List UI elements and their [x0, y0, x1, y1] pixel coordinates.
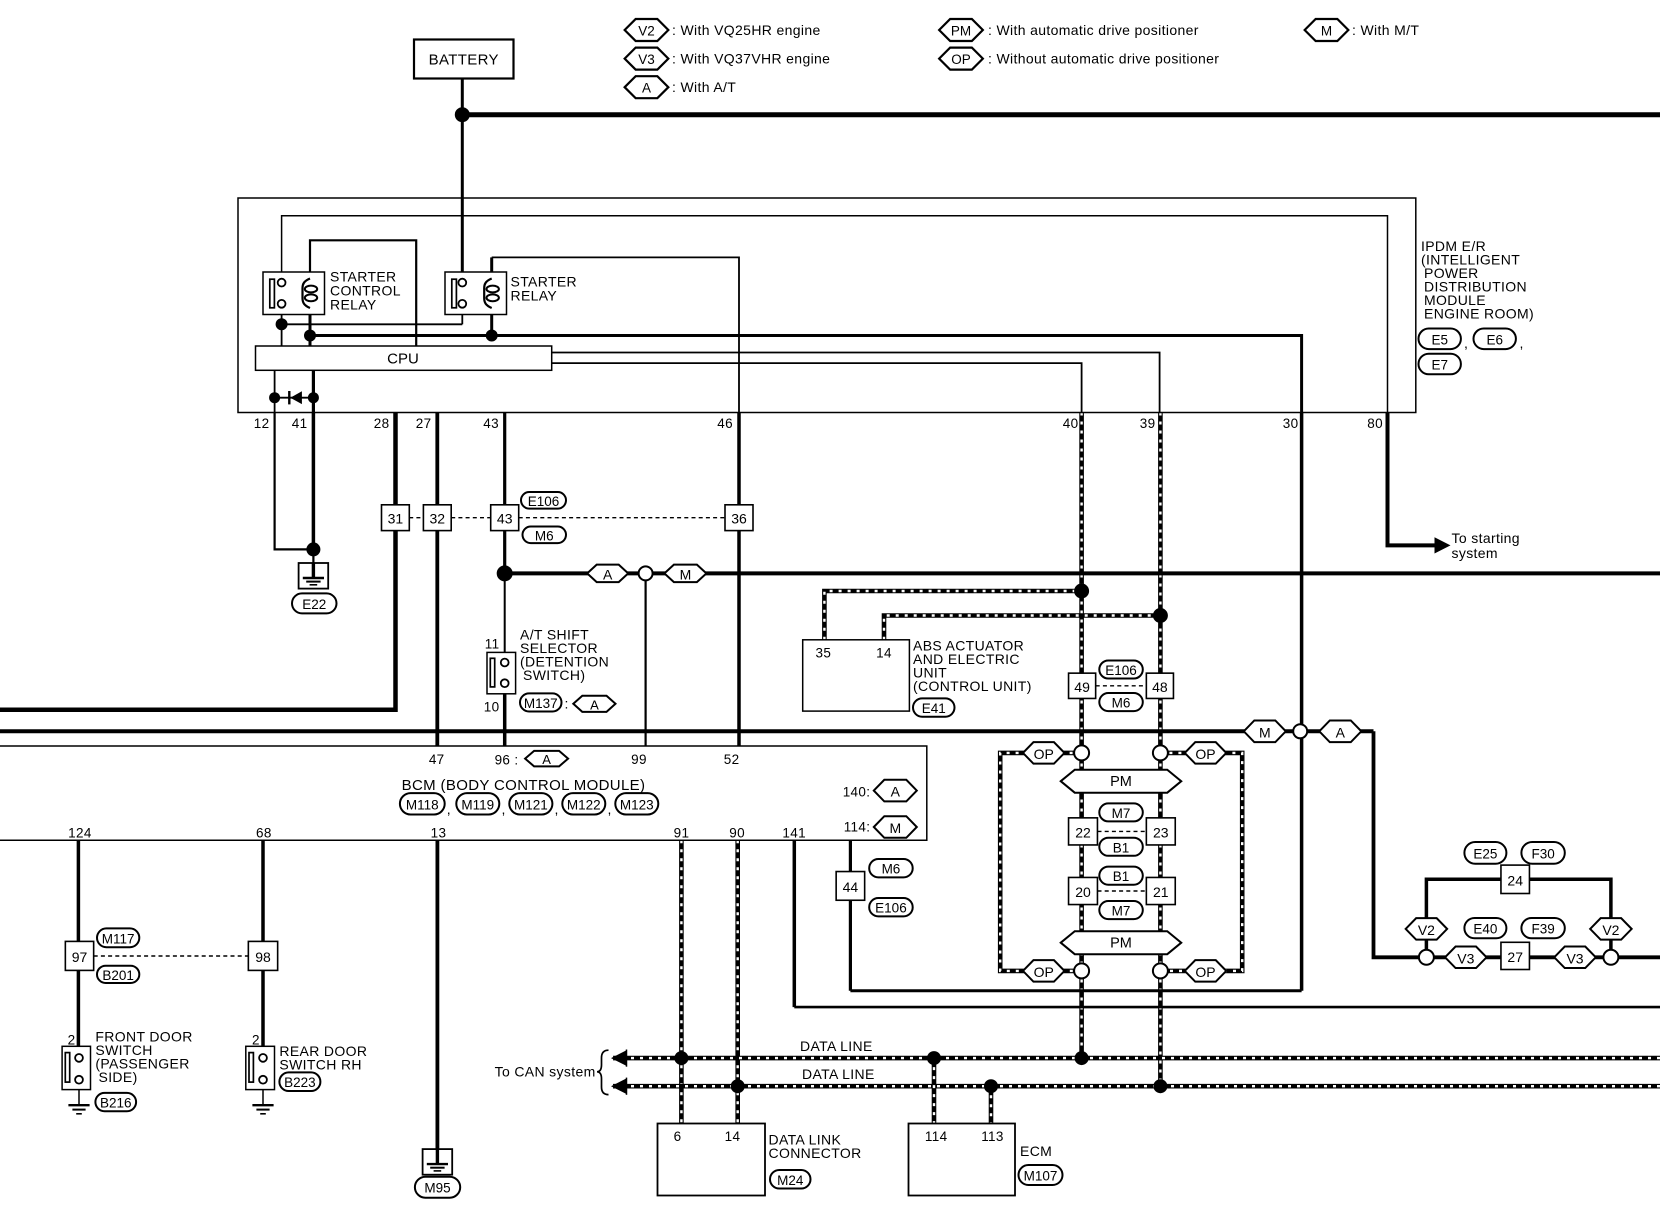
wire V2 option upper branch through connector 24 — [1426, 879, 1611, 950]
connector B201 label — [97, 966, 139, 983]
svg-text:A: A — [590, 697, 599, 712]
svg-text:M118: M118 — [406, 797, 439, 812]
wire A/M junction circle to BCM pin 99 — [644, 573, 646, 746]
option hexagon OP upper right — [1185, 742, 1227, 764]
svg-text:97: 97 — [72, 949, 88, 965]
connector pin 48 — [1146, 673, 1173, 698]
svg-text:,: , — [608, 801, 612, 817]
svg-text:14: 14 — [725, 1129, 741, 1144]
wire IPDM pin 12 to ground junction — [275, 413, 314, 550]
connector M118 label — [400, 793, 445, 814]
wire battery bus to right edge — [462, 112, 1660, 117]
svg-text:M95: M95 — [424, 1181, 450, 1196]
connector pin 44 — [836, 872, 865, 901]
connector F39 label — [1521, 918, 1564, 938]
svg-text:A: A — [1336, 724, 1346, 740]
svg-text:140:: 140: — [843, 785, 871, 800]
ground rear door switch — [252, 1104, 273, 1106]
wire BCM pin 124 to connector 97 — [77, 840, 81, 941]
wire ABS pin 14 branch (dashed) — [884, 616, 1160, 640]
option split circle V right — [1603, 950, 1618, 965]
svg-text:80: 80 — [1367, 416, 1383, 431]
connector M137 label — [520, 693, 562, 711]
svg-text:,: , — [1520, 335, 1524, 351]
wire BCM pin 141 to right edge — [793, 840, 797, 1007]
option hexagon M on run to BCM — [1244, 720, 1286, 742]
connector pin 32 — [423, 505, 451, 531]
svg-text:E22: E22 — [302, 597, 326, 612]
CPU box — [256, 346, 552, 370]
option hexagon OP lower right — [1185, 960, 1227, 982]
ground symbol M95 — [423, 1149, 453, 1175]
svg-text:: With VQ25HR engine: : With VQ25HR engine — [672, 22, 821, 38]
svg-text:OP: OP — [1034, 964, 1054, 980]
connector M7 label at 20-21 — [1099, 901, 1143, 919]
data link connector box — [658, 1124, 766, 1196]
svg-text:RELAY: RELAY — [511, 288, 558, 304]
svg-text:SWITCH RH: SWITCH RH — [279, 1057, 361, 1073]
connector pin 31 — [382, 505, 410, 531]
connector pin 36 — [725, 505, 753, 531]
svg-text:M7: M7 — [1112, 806, 1131, 821]
svg-text:M7: M7 — [1112, 904, 1131, 919]
option split circle wire 40 lower — [1074, 963, 1089, 978]
wire pin 46 run to BCM pin 52 — [737, 413, 741, 747]
svg-text:22: 22 — [1075, 824, 1091, 840]
option hexagon V3 left — [1445, 947, 1487, 969]
svg-text:M137: M137 — [524, 696, 558, 711]
connector M123 label — [615, 793, 658, 814]
svg-text:: With VQ37VHR engine: : With VQ37VHR engine — [672, 51, 830, 67]
junction dot BCM pin 91 on data line 1 — [674, 1051, 688, 1065]
junction dot ABS branch on wire 39 — [1153, 608, 1168, 623]
wire BCM pin 91 to data link connector pin 6 (dashed) — [679, 840, 684, 1123]
connector pin 20 — [1069, 877, 1098, 904]
option hexagon V3 right — [1554, 947, 1596, 969]
connector link 49-48 (dashed) — [1096, 685, 1147, 687]
svg-text:28: 28 — [374, 416, 390, 431]
svg-text:To CAN system: To CAN system — [495, 1064, 596, 1080]
svg-text:10: 10 — [484, 700, 500, 715]
wire connector 98 to rear door switch — [261, 970, 265, 1048]
svg-text:A: A — [542, 752, 551, 767]
connector M107 label — [1019, 1165, 1063, 1185]
legend hexagon PM — [939, 19, 983, 41]
connector pin 98 — [248, 941, 277, 970]
wire CPU to diode anode (pin 12 branch) — [274, 370, 276, 412]
svg-text:ECM: ECM — [1020, 1143, 1052, 1159]
svg-text:E41: E41 — [922, 701, 946, 716]
svg-text:141: 141 — [782, 826, 806, 841]
svg-text:114: 114 — [925, 1129, 948, 1144]
connector link 20-21 (dashed) — [1098, 890, 1147, 892]
svg-text:23: 23 — [1153, 824, 1169, 840]
arrow to starting system — [1435, 537, 1451, 553]
svg-text:68: 68 — [256, 826, 272, 841]
connector E106 label at 49-48 — [1099, 661, 1143, 679]
diode — [269, 392, 280, 403]
svg-text:27: 27 — [1507, 949, 1523, 965]
connector E40 label — [1464, 918, 1506, 938]
arrow data line 2 to CAN — [611, 1078, 627, 1094]
svg-text:B201: B201 — [102, 968, 134, 983]
svg-text:M: M — [680, 566, 692, 582]
svg-text:M123: M123 — [620, 797, 654, 812]
wire ABS pin 35 branch (dashed) — [824, 591, 1081, 640]
wire starter relay coil lower — [490, 308, 493, 336]
svg-text:,: , — [502, 801, 506, 817]
wire coil-return run to IPDM pin 30 — [310, 336, 1302, 413]
svg-text:52: 52 — [724, 752, 740, 767]
connector pin 49 — [1069, 673, 1096, 698]
connector pin 21 — [1146, 877, 1175, 904]
switch rear door switch RH — [246, 1046, 275, 1089]
svg-text:6: 6 — [674, 1129, 682, 1144]
svg-text:E106: E106 — [528, 494, 560, 509]
wire IPDM pin 28 to left edge — [0, 413, 396, 710]
junction dot ABS branch on wire 40 — [1074, 584, 1089, 599]
svg-text:A: A — [642, 81, 651, 96]
IPDM E/R outer box — [238, 198, 1416, 413]
svg-text:V3: V3 — [638, 52, 655, 67]
option split circle V left — [1419, 950, 1434, 965]
connector M6 label at 44 — [869, 859, 913, 877]
junction dot wire 39 on data line 2 — [1153, 1079, 1167, 1093]
svg-text:21: 21 — [1153, 884, 1169, 900]
wire BCM pin 140/114 to connector 44 — [849, 840, 852, 991]
connector E22 label — [292, 593, 337, 613]
junction dot BCM pin 90 on data line 2 — [731, 1079, 745, 1093]
svg-text:SWITCH): SWITCH) — [523, 667, 585, 683]
relay starter relay — [445, 272, 507, 315]
legend hexagon V3 — [625, 48, 669, 70]
svg-text:BCM (BODY CONTROL MODULE): BCM (BODY CONTROL MODULE) — [402, 777, 646, 794]
wire IPDM internal feed to pin 80 (via top run) — [282, 216, 1388, 413]
svg-text:DATA LINE: DATA LINE — [800, 1038, 873, 1054]
svg-text:43: 43 — [497, 511, 513, 527]
wire A/M junction to A/T shift selector pin 11 — [504, 573, 506, 656]
wire starter control relay coil feed frame — [310, 240, 416, 346]
svg-text:To starting: To starting — [1452, 530, 1520, 546]
ECM box — [909, 1124, 1016, 1196]
svg-text:36: 36 — [731, 511, 747, 527]
svg-text:M107: M107 — [1024, 1169, 1058, 1184]
connector M122 label — [562, 793, 605, 814]
connector M6 label at 49-48 — [1099, 693, 1143, 711]
option split circle wire 39 lower — [1153, 963, 1168, 978]
option hexagon PM lower — [1061, 931, 1182, 954]
svg-text:30: 30 — [1283, 416, 1299, 431]
svg-text:27: 27 — [416, 416, 432, 431]
wire OP option loop right (dashed) — [1160, 753, 1242, 971]
option hexagon A on ignition run — [587, 565, 628, 583]
connector M6 label — [523, 527, 567, 544]
svg-text:M24: M24 — [777, 1173, 804, 1188]
svg-text:91: 91 — [674, 826, 690, 841]
svg-text:V3: V3 — [1566, 950, 1583, 966]
svg-text:B223: B223 — [284, 1075, 316, 1090]
svg-text:(CONTROL UNIT): (CONTROL UNIT) — [913, 678, 1032, 694]
svg-text:124: 124 — [68, 826, 92, 841]
svg-text:99: 99 — [631, 752, 647, 767]
wire IPDM pin 43 to A/M junction — [503, 413, 506, 574]
BCM body control module box — [0, 746, 927, 840]
svg-text:43: 43 — [483, 416, 499, 431]
wire CAN data line 2 (dashed) — [613, 1084, 1660, 1089]
svg-text:12: 12 — [254, 416, 270, 431]
svg-text:CPU: CPU — [387, 351, 419, 368]
svg-text:98: 98 — [255, 949, 271, 965]
option split circle wire 39 upper — [1153, 745, 1168, 760]
wire A/T shift selector pin 10 to BCM pin 96 — [503, 686, 507, 746]
connector B223 label — [279, 1072, 320, 1091]
svg-text:114:: 114: — [844, 820, 871, 835]
wire BCM pin 68 to connector 98 — [261, 840, 265, 941]
svg-text:: With M/T: : With M/T — [1352, 22, 1419, 38]
wire rear door switch to earth — [262, 1084, 264, 1106]
relay starter control relay — [263, 272, 325, 315]
brace to CAN system — [597, 1050, 609, 1094]
option hexagon OP upper left — [1023, 742, 1064, 764]
svg-text:ENGINE ROOM): ENGINE ROOM) — [1424, 306, 1534, 322]
wire starter control relay switch lower to CPU and starter relay switch — [281, 308, 283, 346]
connector pin 22 — [1069, 818, 1098, 845]
connector E6 — [1474, 329, 1516, 350]
legend hexagon V2 — [625, 19, 669, 41]
connector E41 label — [913, 698, 955, 716]
svg-text:OP: OP — [1034, 746, 1054, 762]
svg-text:E25: E25 — [1473, 846, 1497, 861]
svg-text:24: 24 — [1507, 872, 1523, 888]
connector link 22-23 (dashed) — [1098, 830, 1147, 832]
connector E106 label — [521, 492, 566, 509]
svg-text:11: 11 — [485, 637, 500, 652]
junction dot starter control relay switch return — [276, 318, 288, 330]
svg-text:96 :: 96 : — [495, 753, 519, 768]
connector M95 label — [415, 1177, 460, 1198]
wire BCM 140/114 link run — [850, 989, 1301, 992]
svg-text:BATTERY: BATTERY — [429, 52, 499, 69]
svg-text:V2: V2 — [638, 24, 655, 39]
connector B216 label — [95, 1093, 136, 1111]
svg-text:2: 2 — [252, 1033, 260, 1048]
connector B1 label at 22-23 — [1099, 838, 1143, 856]
option split circle on ignition run — [639, 566, 653, 580]
wire BCM pin 13 to ground M95 — [435, 840, 439, 1150]
connector M119 label — [456, 793, 499, 814]
wire ECM pin 114 to data line 1 (dashed) — [932, 1058, 937, 1123]
svg-text:F39: F39 — [1531, 922, 1554, 937]
svg-text:PM: PM — [1110, 774, 1132, 790]
svg-text:E5: E5 — [1431, 332, 1448, 347]
ABS actuator and electric unit box — [803, 640, 910, 711]
wire ECM pin 113 to data line 2 (dashed) — [989, 1086, 994, 1123]
connector M121 label — [509, 793, 552, 814]
svg-text:48: 48 — [1152, 679, 1168, 695]
svg-text:14: 14 — [876, 646, 892, 661]
svg-text:35: 35 — [816, 646, 832, 661]
connector pin 97 — [65, 941, 93, 970]
svg-text:M117: M117 — [102, 931, 135, 946]
svg-text:M122: M122 — [567, 797, 601, 812]
svg-text:A: A — [603, 566, 613, 582]
wire CPU to IPDM pin 39 — [552, 353, 1160, 413]
svg-text:SIDE): SIDE) — [99, 1069, 138, 1085]
junction dot starter relay coil return — [486, 330, 498, 342]
svg-text:90: 90 — [729, 826, 745, 841]
connector link 97-98 (dashed) — [94, 955, 249, 957]
connector pin 43 — [491, 505, 519, 531]
ground front door switch — [68, 1104, 89, 1106]
svg-text:F30: F30 — [1531, 846, 1554, 861]
wire CPU to IPDM pin 40 — [552, 363, 1082, 412]
svg-text:M119: M119 — [461, 797, 494, 812]
connector E106 label at 44 — [869, 898, 913, 916]
wire CPU to diode cathode (pin 41 branch) — [312, 370, 315, 412]
svg-text:V2: V2 — [1418, 922, 1435, 938]
wire ignition A/M run to right edge — [505, 571, 1660, 575]
svg-text:M: M — [1259, 724, 1271, 740]
svg-text:M: M — [1321, 24, 1332, 39]
svg-text:31: 31 — [388, 511, 404, 527]
svg-text:46: 46 — [717, 416, 733, 431]
connector pin 23 — [1146, 818, 1175, 845]
svg-text:M6: M6 — [882, 862, 901, 877]
svg-text:13: 13 — [431, 826, 447, 841]
junction dot pin 43 wire to A/M run — [497, 565, 513, 581]
wire front door switch to earth — [78, 1084, 80, 1106]
wire starter control relay coil lower to CPU — [309, 308, 312, 347]
svg-text:40: 40 — [1063, 416, 1079, 431]
connector pin 24 — [1501, 865, 1530, 893]
svg-text:A: A — [891, 784, 901, 800]
svg-text:M: M — [889, 820, 901, 836]
junction dot ECM 114 on data line 1 — [927, 1051, 941, 1065]
wire IPDM pin 41 to ground junction E22 — [312, 413, 316, 550]
legend hexagon OP — [939, 48, 983, 70]
wire IPDM pin 80 to starting system — [1388, 413, 1437, 546]
wire IPDM pin 39 to CAN data line 2 (dashed) — [1158, 413, 1163, 1087]
svg-text:B216: B216 — [100, 1096, 132, 1111]
junction dot battery bus — [455, 107, 470, 122]
connector F30 label — [1521, 842, 1564, 864]
svg-text:CONNECTOR: CONNECTOR — [769, 1145, 862, 1161]
option split circle wire 40 upper — [1074, 745, 1089, 760]
junction dot ground E22 — [306, 542, 320, 556]
svg-text:,: , — [555, 801, 559, 817]
wire IPDM pin 40 to CAN data line 1 (dashed) — [1079, 413, 1084, 1059]
svg-text:E6: E6 — [1486, 332, 1503, 347]
option hexagon V2 left — [1406, 918, 1448, 940]
svg-text:PM: PM — [951, 24, 971, 39]
svg-text:32: 32 — [430, 511, 446, 527]
battery — [414, 40, 514, 79]
wire M/T A/T option run (y=731) — [0, 729, 1374, 733]
svg-text:20: 20 — [1075, 884, 1091, 900]
svg-text:: Without automatic drive posi: : Without automatic drive positioner — [988, 51, 1219, 67]
junction dot wire 40 on data line 1 — [1075, 1051, 1089, 1065]
connector pin 27 engine — [1501, 942, 1530, 969]
svg-text:: With A/T: : With A/T — [672, 79, 736, 95]
svg-text:47: 47 — [429, 752, 445, 767]
connector M117 label — [97, 928, 139, 947]
svg-text:41: 41 — [292, 416, 308, 431]
svg-text:39: 39 — [1140, 416, 1156, 431]
svg-text:2: 2 — [68, 1033, 76, 1048]
wire IPDM pin 27 to BCM pin 47 — [435, 413, 439, 747]
svg-text:113: 113 — [981, 1129, 1004, 1144]
connector M7 label at 22-23 — [1099, 803, 1143, 821]
svg-text:V2: V2 — [1602, 922, 1619, 938]
option hexagon V2 right — [1590, 918, 1632, 940]
option hexagon PM upper — [1061, 770, 1182, 793]
svg-text:44: 44 — [843, 879, 859, 895]
svg-text:system: system — [1452, 545, 1498, 561]
svg-text::: : — [565, 696, 569, 712]
wire BCM pin 90 to data link connector pin 14 (dashed) — [735, 840, 740, 1123]
svg-text:V3: V3 — [1457, 950, 1474, 966]
option hexagon A at M137 — [573, 696, 615, 712]
svg-text:,: , — [1464, 335, 1468, 351]
svg-text:B1: B1 — [1113, 840, 1130, 855]
ground symbol E22 — [299, 563, 329, 589]
svg-text:PM: PM — [1110, 936, 1132, 952]
svg-text:E106: E106 — [875, 901, 907, 916]
switch A/T shift selector (detention switch) — [487, 652, 516, 693]
svg-text:M6: M6 — [1112, 696, 1131, 711]
wire battery to junction — [461, 79, 464, 115]
wire CAN data line 1 (dashed) — [613, 1056, 1660, 1061]
connector E5 — [1419, 329, 1461, 350]
option hexagon A on run to BCM — [1319, 720, 1361, 742]
option hexagon OP lower left — [1023, 960, 1064, 982]
legend hexagon M — [1305, 19, 1349, 41]
option split circle pin 30 run — [1293, 724, 1307, 738]
wire battery feed to starter relay switch — [461, 115, 464, 279]
svg-text:M121: M121 — [514, 797, 548, 812]
junction dot starter control relay coil return — [304, 330, 316, 342]
wire connector 97 to front door switch — [77, 970, 81, 1048]
svg-text:E7: E7 — [1431, 358, 1448, 373]
svg-text:B1: B1 — [1113, 869, 1130, 884]
wire IPDM pin 30 down to BCM branch — [1300, 413, 1304, 991]
svg-text:E40: E40 — [1473, 922, 1497, 937]
svg-text:OP: OP — [951, 52, 971, 67]
svg-text:OP: OP — [1195, 964, 1215, 980]
connector M24 label — [770, 1170, 811, 1189]
connector link 31-32-43-36 (dashed) — [409, 517, 423, 519]
svg-text:RELAY: RELAY — [330, 297, 377, 313]
svg-text:DATA LINE: DATA LINE — [802, 1066, 875, 1082]
svg-text:OP: OP — [1195, 746, 1215, 762]
svg-text:E106: E106 — [1105, 663, 1137, 678]
wire ground junction to ground symbol — [312, 549, 314, 565]
junction dot ECM 113 on data line 2 — [984, 1079, 998, 1093]
legend hexagon A — [625, 76, 669, 98]
connector E25 label — [1464, 842, 1506, 864]
svg-text:: With automatic drive positio: : With automatic drive positioner — [988, 22, 1199, 38]
connector E7 — [1419, 354, 1461, 375]
svg-text:49: 49 — [1074, 679, 1090, 695]
wire A/T branch to V2/V3 split — [1374, 731, 1660, 957]
arrow data line 1 to CAN — [611, 1050, 627, 1066]
switch front door switch (passenger side) — [62, 1046, 90, 1089]
connector B1 label at 20-21 — [1099, 867, 1143, 885]
wire OP option loop left (dashed) — [1000, 753, 1081, 971]
svg-text:M6: M6 — [535, 528, 554, 543]
svg-text:,: , — [447, 801, 451, 817]
wire starter relay coil top to IPDM pin 46 — [492, 257, 739, 412]
